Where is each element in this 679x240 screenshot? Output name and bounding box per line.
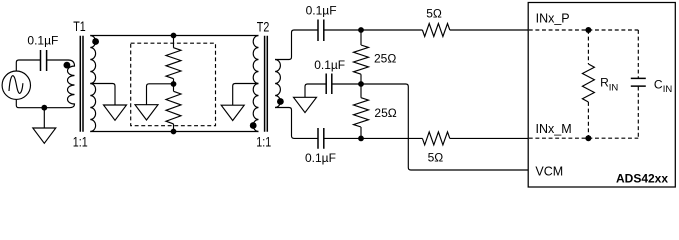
svg-text:T2: T2	[257, 19, 270, 35]
dashed internal box top edge	[588, 29, 638, 31]
svg-text:25Ω: 25Ω	[374, 106, 396, 120]
svg-text:0.1µF: 0.1µF	[314, 58, 345, 72]
resistor R5 25 ohm bottom	[354, 84, 369, 138]
dashed internal box bottom edge	[588, 137, 638, 139]
phase dot T1 secondary	[92, 38, 99, 45]
resistor R3 5 ohm top	[422, 24, 449, 37]
svg-text:C: C	[654, 77, 663, 91]
junction dot divider bottom	[171, 129, 177, 135]
wire C1 to T1 primary	[47, 59, 68, 61]
capacitor C3 plates	[326, 74, 332, 95]
dashed wire INx_P internal	[529, 29, 589, 31]
junction dot divider top	[171, 33, 177, 39]
wire C3 to VCM node	[332, 83, 361, 85]
wire T1 secondary center tap to ground	[90, 84, 115, 106]
T1 core	[80, 36, 83, 132]
svg-text:INx_M: INx_M	[536, 122, 572, 136]
resistor R1 top of divider	[166, 36, 181, 85]
junction dot node M	[358, 136, 364, 142]
dashed box interstage termination	[131, 43, 216, 126]
dashed R_IN leads	[587, 30, 589, 138]
AC source V1	[2, 71, 30, 99]
wire T2 secondary bottom lead	[275, 108, 317, 139]
transformer T1 secondary winding	[90, 36, 95, 132]
phase dot T1 primary	[64, 62, 71, 69]
wire C3 left to ground	[305, 84, 326, 97]
ground triangle at source	[33, 128, 56, 143]
ground triangle T2 center tap	[221, 105, 244, 120]
sine wave inside source	[9, 76, 23, 94]
transformer T1 primary winding	[68, 60, 75, 108]
phase dot T2 secondary	[277, 98, 284, 105]
svg-text:VCM: VCM	[535, 165, 563, 179]
svg-text:0.1µF: 0.1µF	[305, 151, 336, 165]
transformer T2 secondary winding	[275, 60, 280, 108]
ground triangle divider	[135, 105, 158, 120]
wire C2 to node P	[324, 29, 422, 31]
capacitor C2 plates	[318, 20, 324, 42]
svg-text:IN: IN	[663, 84, 673, 95]
junction dot node P	[358, 27, 364, 33]
svg-text:1:1: 1:1	[256, 133, 271, 149]
resistor R2 bottom of divider	[166, 84, 181, 132]
wire T2 primary center tap to ground	[233, 84, 259, 106]
wire interstage top	[90, 35, 258, 37]
wire VCM route	[361, 84, 528, 170]
wire divider mid to ground	[147, 84, 174, 105]
wire R6 to INx_M pin	[450, 137, 528, 139]
junction dot divider mid	[171, 81, 177, 87]
terminal dot internal M	[585, 135, 591, 141]
svg-text:IN: IN	[609, 83, 619, 94]
wire source top lead	[16, 60, 40, 71]
svg-text:T1: T1	[73, 18, 86, 34]
svg-text:25Ω: 25Ω	[374, 51, 396, 65]
junction dot AC bottom	[41, 105, 47, 111]
T2 core	[265, 36, 268, 132]
capacitor C1 plates	[41, 50, 47, 71]
dashed wire INx_M internal	[529, 137, 589, 139]
wire R3 to INx_P pin	[450, 29, 528, 31]
capacitor C4 plates	[318, 128, 324, 149]
dashed C_IN leads	[637, 30, 639, 138]
junction dot node VCM	[358, 81, 364, 87]
transformer T2 primary winding	[253, 36, 258, 132]
wire interstage bottom	[90, 131, 258, 133]
svg-text:0.1µF: 0.1µF	[306, 3, 337, 17]
ground stub at source	[43, 108, 45, 128]
ground triangle C3	[294, 97, 317, 112]
svg-text:0.1µF: 0.1µF	[27, 33, 58, 47]
ADS42xx box	[528, 3, 675, 188]
svg-text:INx_P: INx_P	[536, 11, 570, 25]
svg-text:5Ω: 5Ω	[428, 151, 444, 165]
wire source bottom lead	[16, 99, 69, 107]
wire C4 to node M	[324, 137, 422, 139]
terminal dot internal P	[585, 27, 591, 33]
resistor R6 5 ohm bottom	[422, 132, 449, 145]
ground triangle T1 center tap	[104, 105, 127, 120]
svg-text:1:1: 1:1	[73, 133, 88, 149]
svg-text:ADS42xx: ADS42xx	[616, 172, 668, 186]
resistor R_IN	[582, 64, 594, 102]
resistor R4 25 ohm top	[354, 30, 369, 84]
svg-text:5Ω: 5Ω	[426, 6, 442, 20]
capacitor C_IN plates	[631, 78, 646, 86]
phase dot T2 primary	[250, 122, 257, 129]
wire T2 secondary top lead	[275, 30, 318, 60]
